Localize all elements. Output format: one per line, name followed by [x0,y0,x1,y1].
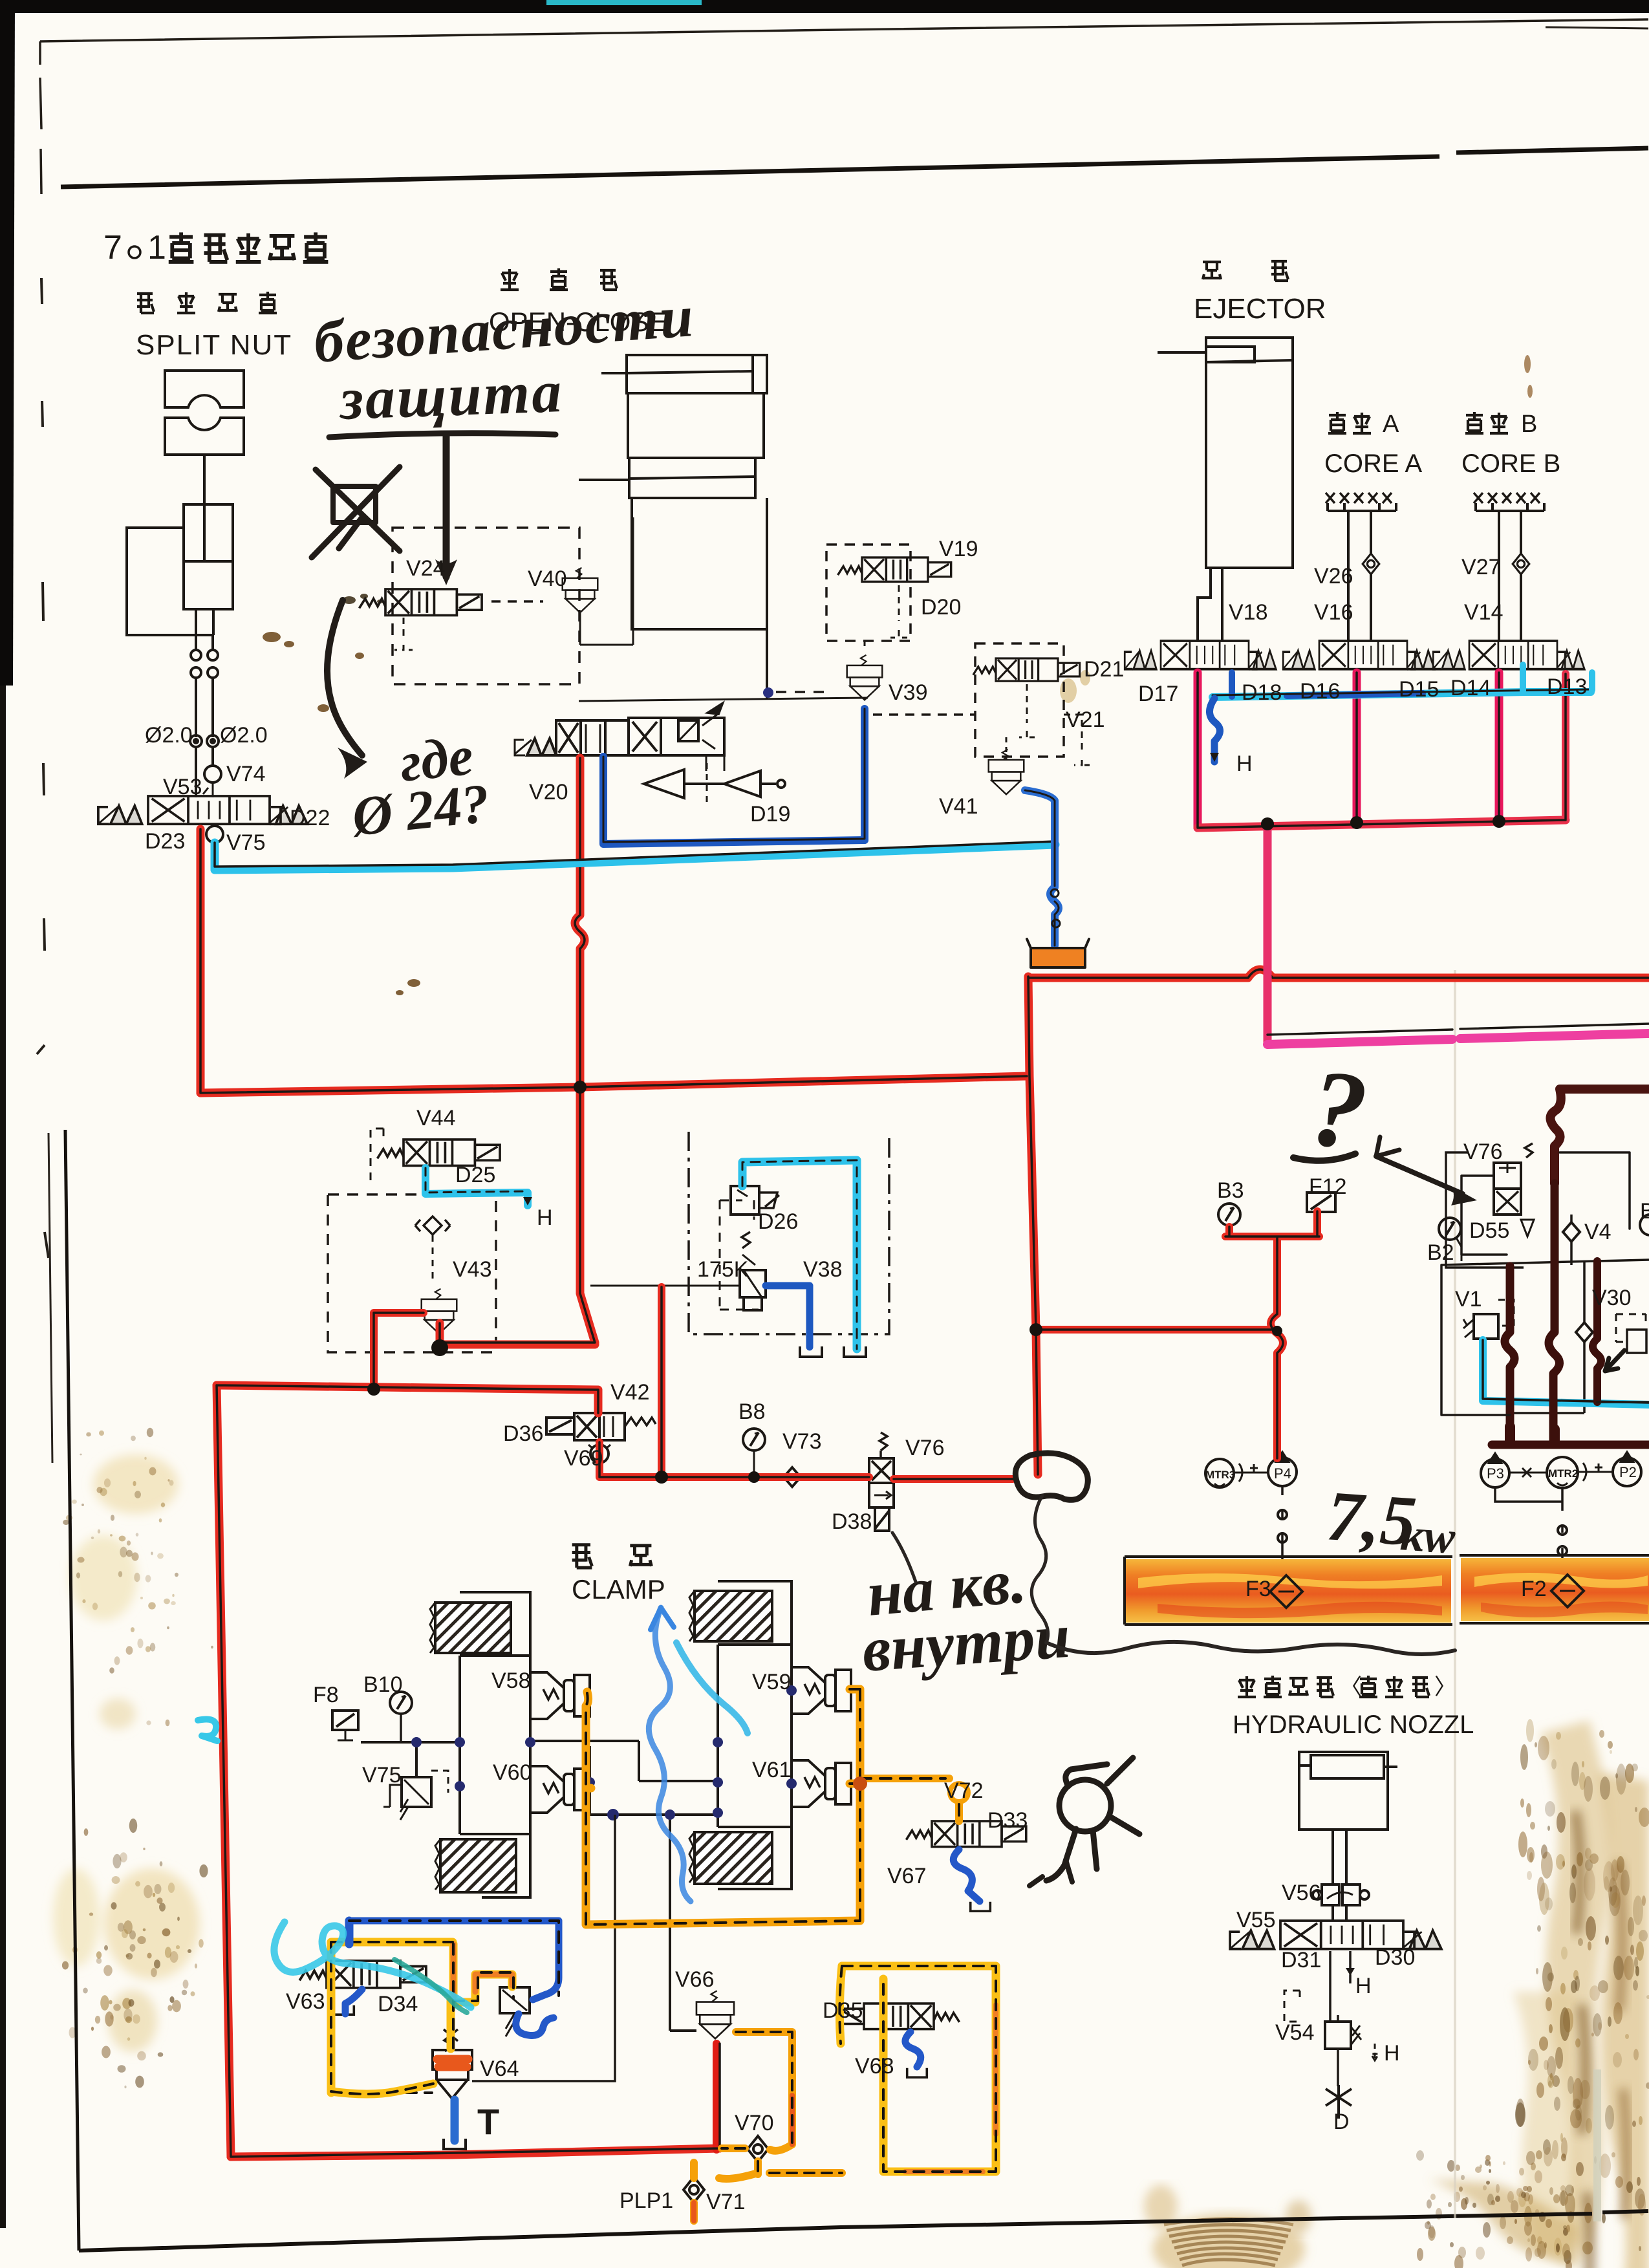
orange overdraw red bits [694,2095,792,2221]
pump group P3/MTR2/P2 [1481,1454,1509,1487]
valve V66 cone [696,1991,734,2038]
core B anchor bar [1476,503,1544,511]
svg-text:V58: V58 [491,1669,531,1693]
svg-text:D31: D31 [1281,1948,1321,1972]
wire red: trunk elbow to V43 junction [440,1323,595,1350]
wire core A to V16 [1348,511,1371,641]
wire red: D13 drop [1562,674,1569,820]
black centerlines ejector loop [1198,673,1649,1035]
svg-text:CORE A: CORE A [1324,449,1422,478]
svg-text:V21: V21 [1066,707,1105,732]
valve V60 cone [530,1766,590,1813]
page left edge intermittent marks [37,278,48,1258]
valve V16 [1283,641,1434,669]
svg-text:B: B [1521,411,1537,438]
svg-text:D26: D26 [758,1209,798,1234]
title 7.1 hydraulic schematic [103,229,328,266]
wire open-close right drop [766,498,768,700]
svg-text:кw: кw [1399,1508,1458,1564]
open-close cylinder [627,355,767,393]
svg-text:V40: V40 [528,567,567,591]
wire blue: V39 drain drop [861,709,868,840]
svg-text:Ø2.0: Ø2.0 [145,723,193,748]
split nut jaw symbol [165,371,244,407]
wire maroon: block vertical 2 [1505,1266,1514,1442]
svg-text:D22: D22 [290,806,330,830]
black dashes over yellow box [331,1942,513,2093]
svg-text:V63: V63 [286,1989,325,2014]
wire red: ejector bottom rail [1198,820,1566,828]
wire V75 branch [415,1742,418,1777]
svg-text:7: 7 [103,229,122,266]
svg-text:V75: V75 [226,830,266,855]
svg-text:V39: V39 [889,680,928,705]
valve V53 3-position [98,796,307,824]
wire crimson: V16 drop [1353,673,1361,823]
filter F2 [1551,1575,1584,1607]
handwriting: D38 tick [892,1533,916,1582]
section label core A (chinese) [1328,411,1399,438]
black dashes over V66-V70 net [722,2032,842,2173]
dashed box V24 [393,528,579,684]
valve V64 cone [433,2031,472,2099]
svg-text:B: B [1640,1199,1649,1224]
svg-text:CORE B: CORE B [1461,449,1560,478]
valve V63/D34 [299,1961,426,1988]
left inner frame main line [65,1130,79,2251]
svg-text:PLP1: PLP1 [620,2188,673,2213]
valve V58 cone [530,1672,590,1719]
wire blue left leg into D34 [345,1921,354,1944]
svg-text:D33: D33 [987,1808,1028,1833]
valve V38 relief [742,1232,750,1248]
couplings P3-MTR2-P2 [1509,1463,1613,1481]
svg-text:D: D [1333,2110,1350,2134]
tank V68 [907,2068,927,2077]
check V72 orange circle [950,1784,968,1802]
valve V44 [378,1139,501,1165]
svg-text:D55: D55 [1469,1218,1509,1243]
valve D21 drain dashes [1019,684,1090,765]
wire orange: V66 to V70 [694,2032,842,2221]
stain left lower cluster [53,1868,200,2052]
handwriting: arrow to V76 [1376,1156,1463,1194]
junction dots clamp [411,1685,797,1820]
teal sliver in top band [546,0,702,5]
wire split nut down lines [196,609,213,737]
wire magenta: tee down to lower rail [1264,826,1272,1042]
svg-text:D30: D30 [1375,1945,1415,1970]
wire maroon: drop to power block [1549,1183,1560,1442]
clamp left cylinder body [460,1656,530,1834]
flow control V56 [1313,1885,1369,1905]
valve V19 [838,557,951,581]
throttle outlet D [1326,2085,1352,2119]
svg-text:V61: V61 [752,1758,792,1782]
wire maroon: block vertical 3 [1593,1261,1601,1402]
svg-text:V66: V66 [675,1967,715,1992]
check V4 [1563,1222,1580,1242]
black dashes over D25 drain [426,1168,528,1193]
wire red: V42 to V76 service line [599,1442,1013,1479]
black dashes over orange clamp net [586,1689,959,1925]
wire cyan: D25 drain [426,1168,528,1205]
check V27 [1513,554,1529,574]
svg-text:D21: D21 [1084,657,1124,682]
wire V39 spring dash up [864,641,866,650]
svg-text:B2: B2 [1427,1240,1454,1265]
dashes diamond to V43 [432,1235,434,1280]
valve V18 [1125,641,1276,669]
svg-text:D34: D34 [378,1992,418,2016]
svg-text:V76: V76 [1463,1139,1503,1164]
stain bottom right corner [1429,2179,1578,2267]
svg-text:V70: V70 [735,2111,774,2135]
valve V55 [1230,1921,1441,1949]
svg-text:D36: D36 [503,1421,543,1446]
left black scanner strip upper [0,6,15,686]
wire P4 suction [1281,1486,1284,1573]
wire red: riser to V66 [713,2044,720,2150]
black dashes over D26 loop [742,1160,857,1349]
stain specks near gde [263,632,420,995]
orange overdraw on D35 box [905,2005,996,2172]
check diamond V73 [784,1467,801,1487]
wire black: power unit frame lines [1441,1152,1649,1415]
svg-text:V56: V56 [1282,1881,1321,1905]
wire blue: D34 tank stub [345,1989,362,2014]
svg-text:D17: D17 [1138,682,1178,706]
wire yellow: box around V63/D34 [331,1942,512,2093]
wire nozzle to V56 [1333,1830,1346,1921]
clamp right cylinder hatched foot [689,1827,792,1889]
svg-text:H: H [1236,751,1253,776]
svg-text:V1: V1 [1455,1287,1482,1312]
svg-text:D15: D15 [1399,677,1439,702]
handwriting: underline with arrow [329,433,555,437]
gauge B3 [1218,1204,1240,1226]
svg-text:V74: V74 [226,762,266,786]
wire pilot rail [579,698,868,701]
valve V76/D38 sequence [879,1432,887,1458]
gauge B8 [743,1429,765,1451]
wire red: main pressure rail 1b to right edge [1028,969,1649,978]
clamp right cylinder hatched head [689,1581,792,1645]
svg-text:V27: V27 [1461,555,1501,579]
nozzle cylinder [1299,1752,1388,1830]
wire core B to V14 [1499,511,1521,641]
svg-text:V19: V19 [939,537,978,561]
dashed box D20/V19 [826,545,911,641]
filter F8 [332,1711,358,1740]
svg-text:D16: D16 [1300,679,1340,704]
valve V39 cone [847,655,883,700]
pilot amplifier D19 triangles [644,770,760,798]
gauge B10 [390,1692,412,1714]
wire red: bottom rail [231,2148,720,2157]
svg-text:V54: V54 [1275,2020,1315,2045]
core A anchor bar [1328,503,1396,511]
oil tank outline left [1125,1557,1452,1625]
handwriting: crossed-out box [333,486,376,523]
valve V43 cone [422,1289,457,1334]
svg-text:P4: P4 [1274,1465,1291,1482]
wire V40 to rail [580,517,633,645]
svg-text:F2: F2 [1521,1577,1547,1601]
page top edge line [40,19,1648,41]
tank D34 [334,2005,354,2014]
tank V67 [971,1902,991,1911]
orifice dots 2.0 [190,735,202,747]
svg-text:V64: V64 [480,2057,519,2081]
valve V54 [1325,2022,1351,2049]
svg-text:V71: V71 [706,2190,746,2214]
check V70 [748,2136,768,2162]
svg-text:V42: V42 [610,1380,650,1405]
section label split nut (chinese) [137,292,277,313]
small orange tank V41 [1027,939,1089,967]
svg-text:V41: V41 [939,794,978,819]
handwriting: stick figure [1029,1758,1139,1886]
junction dot orange net [853,1777,867,1791]
svg-text:F8: F8 [313,1683,339,1707]
filter F3 [1270,1575,1302,1608]
svg-text:V18: V18 [1229,600,1268,625]
svg-text:защита: защита [337,358,565,432]
svg-text:P2: P2 [1619,1464,1637,1480]
wire cyan: V75 drain long line [215,843,1055,870]
svg-text:175K: 175K [697,1257,749,1282]
svg-text:MTR2: MTR2 [1548,1467,1578,1480]
ejector cylinder [1206,338,1293,568]
svg-text:D20: D20 [921,595,961,620]
wire cyan: scribble near V63 [274,1922,471,2007]
svg-text:B10: B10 [363,1672,403,1697]
svg-text:F3: F3 [1245,1577,1271,1601]
wire cyan: risers to V14/V16 [1523,665,1592,692]
wire split nut stem [203,455,206,504]
wire yellow: left feed into V64 [331,2084,433,2094]
wire red: V43 left loop [374,1313,424,1390]
valve V1 [1474,1314,1498,1339]
tank D26 drain [844,1346,866,1357]
handwriting: wavy underline above nozzle title [1046,1642,1455,1654]
check V26 [1363,554,1379,574]
black centerline over cyan drain [215,841,1055,867]
wire blue: V67 drain [953,1850,980,1901]
wire blue over drain header [1232,673,1423,697]
svg-text:D35: D35 [823,1998,863,2023]
wire yellow: D35 enclosure box [842,1966,996,2172]
svg-text:B8: B8 [738,1399,766,1424]
wire red: main pressure rail 1 [200,1076,1027,1093]
svg-text:V24: V24 [406,556,446,581]
clamp left cylinder hatched head [430,1592,530,1656]
stain left mid cluster [70,1454,178,1729]
valve V20 proportional [515,704,724,755]
valve V40 cone [563,568,598,612]
wire blue: V41 drain to small tank [1025,790,1059,945]
svg-text:B3: B3 [1217,1178,1244,1203]
valve D21 [973,658,1080,681]
svg-text:V4: V4 [1584,1220,1611,1244]
paper fold crease right [1454,970,1456,2218]
wire blue: V38 drain [766,1286,810,1347]
valve V61 cone [792,1760,851,1807]
svg-text:D23: D23 [145,829,185,854]
svg-text:V16: V16 [1314,600,1353,625]
dashed box right of V30 [1616,1314,1646,1342]
valve V75 relief [402,1777,431,1807]
valve D35 [839,2003,959,2029]
wire blue: V20 drain to V39 line [603,757,865,844]
svg-text:D14: D14 [1450,676,1491,700]
check V69 [590,1445,609,1463]
wire cyan: V1 suction line [1483,1340,1649,1405]
stain right edge band [1513,1720,1649,2268]
handwriting: squiggle tail to wavy line [1031,1495,1048,1643]
wire teal: scribble crossing D34 [394,1960,467,2013]
svg-text:V55: V55 [1236,1908,1276,1932]
svg-text:V26: V26 [1314,564,1353,589]
section label hydraulic nozzle (chinese) [1238,1675,1456,1700]
svg-text:D38: D38 [832,1509,872,1534]
svg-text:D18: D18 [1242,680,1282,705]
svg-text:V67: V67 [887,1864,927,1888]
wire crimson: ejector V18 drop [1194,673,1202,828]
svg-text:HYDRAULIC NOZZL: HYDRAULIC NOZZL [1233,1711,1474,1739]
rod stubs open-close [579,373,629,480]
dash-dot box 175K module [689,1132,889,1334]
svg-text:Ø2.0: Ø2.0 [220,723,268,748]
wire red: rail2/V42 riser top [1028,977,1038,1474]
svg-text:V68: V68 [855,2054,894,2079]
wire red: B3-F12 links [1225,1211,1319,1458]
black dashes over blue rect [349,1921,559,1996]
stain specks near D21 [1060,670,1090,703]
svg-text:V14: V14 [1464,600,1503,625]
svg-text:V76: V76 [905,1436,945,1460]
wire V41 spring dash up [1006,737,1008,761]
wire crimson: V14 drop [1495,673,1503,821]
check V30 [1576,1323,1593,1342]
wire P3 P2 suction manifold [1495,1487,1562,1577]
wire clamp manifold top [361,1741,718,1781]
power unit gauge B2 [1439,1218,1461,1240]
svg-text:V44: V44 [416,1106,456,1130]
wire orange red: V64 spring fill [437,2059,468,2067]
svg-text:V75: V75 [362,1763,402,1787]
coupling MTR3-P4 [1234,1463,1268,1482]
svg-text:V43: V43 [453,1257,492,1282]
inner dashed box 175K [720,1200,759,1310]
wire B10 stem [400,1714,402,1742]
wire to V74 [196,747,213,797]
svg-text:SPLIT NUT: SPLIT NUT [136,329,292,361]
dashed box V43 assembly [328,1194,496,1352]
node blue dot open-close [763,687,773,698]
svg-text:H: H [1355,1974,1372,1998]
wire maroon: right edge supply corner [1550,1089,1649,1183]
section label ejector (chinese) [1203,261,1288,281]
wire V38 to tank [766,1286,811,1348]
gauge B right edge partial [1640,1215,1649,1235]
wire blue: V64 tank drop [451,2100,459,2141]
black dashes over D35 box [839,1966,996,2172]
svg-text:V60: V60 [493,1760,532,1785]
wire clamp manifold lower [530,1781,718,1815]
stain top-right small marks [1524,355,1533,398]
wire orange: V58/V60 out [586,1692,591,1791]
pen arrow annotation near V30 [1605,1350,1624,1371]
tank V38 [800,1346,822,1357]
wire dashes node to D20 box [776,691,828,693]
svg-text:1: 1 [147,229,166,266]
junction dots red rails [367,1081,1282,1484]
wire maroon: manifold risers blobs [1510,1427,1555,1442]
black centerline V1 line [1483,1340,1649,1403]
orange overdraw on yellow box verticals [453,1944,512,2001]
wire V24 plug dash right [491,600,543,603]
valve V42/D36 [546,1413,656,1440]
wire V55 down [1330,1951,1350,2022]
wire red: 175K branch riser [658,1287,665,1477]
valve V24 [360,589,482,615]
svg-text:EJECTOR: EJECTOR [1194,293,1326,325]
svg-text:P3: P3 [1487,1465,1504,1482]
svg-text:V30: V30 [1592,1286,1632,1310]
svg-text:D25: D25 [455,1163,495,1187]
svg-text:H: H [537,1205,553,1230]
black centerline V39 drop [603,709,865,842]
filter F12 [1307,1193,1335,1212]
svg-text:MTR3: MTR3 [1205,1469,1235,1481]
oil tank outline right [1460,1555,1649,1623]
enclosure box clamp pilot circuit [472,1837,615,2081]
svg-text:CLAMP: CLAMP [572,1574,665,1604]
section label core B (chinese) [1465,411,1537,438]
valve V41 cone [989,750,1024,794]
junction dots ejector rail [1261,815,1505,830]
wire red: left riser down to bottom [217,1385,231,2157]
black centerlines over red [200,758,1649,2157]
handwriting: circle blob at pump junction [1015,1453,1088,1500]
check valve V74 [204,766,221,783]
valve V59 cone [792,1667,851,1714]
wire red: split-nut pressure drop from D23 [197,829,205,1093]
heavy top frame line [61,148,1648,187]
svg-text:V53: V53 [163,775,202,799]
wire cyan: D-valve drain header [1212,692,1591,697]
check valve V75 [206,826,223,843]
svg-text:V72: V72 [944,1778,984,1803]
stain dark specks near handwriting [343,594,383,604]
svg-text:V20: V20 [529,780,568,805]
valve D55 [1494,1143,1534,1237]
coupling circles split nut [191,650,201,660]
wire red: V20 trunk down [575,758,595,1343]
black centerline V41 drain [1025,790,1059,945]
power manifold thin frame [1441,1260,1649,1265]
valve D26 reducing [731,1186,759,1215]
wire blue: H drain arrow ejector [1209,698,1220,762]
dashes around V44 [371,1129,383,1183]
wire 175K feed [590,1285,740,1287]
valve V24 drain dashes [394,618,413,650]
wire black thin: B2 link [1461,1176,1507,1255]
wire clamp long drop to V66 [670,1815,696,2031]
wire orange: branch to V72 [860,1778,959,1821]
